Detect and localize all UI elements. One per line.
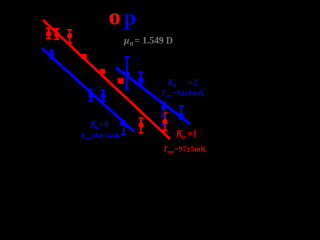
svg-text:p: p <box>124 4 136 29</box>
blue error bar B2-5 <box>179 106 184 119</box>
blue error bar B2-2 <box>138 72 143 86</box>
blue lower cap tick B2-4b <box>161 124 165 126</box>
red error bar R2 <box>54 29 59 39</box>
blue marker B2-5 <box>179 113 184 118</box>
blue fit line 1 (para, Ka=0) <box>42 48 134 131</box>
blue marker B2-1 <box>125 72 130 77</box>
red marker R7 <box>139 123 144 128</box>
red error bar R7 <box>139 118 144 133</box>
blue error bar B1-4 <box>121 128 126 135</box>
arrowhead on blue line 1 <box>119 118 128 128</box>
svg-text:= 1.549 D: = 1.549 D <box>135 37 174 47</box>
blue error bar B1-2 <box>88 89 93 101</box>
dipole moment label <box>123 37 173 48</box>
red error bar R1 <box>46 28 51 38</box>
svg-text:rot: rot <box>167 150 174 156</box>
blue marker B1-1 <box>49 52 54 57</box>
label Trot=94+-6mK (blue, right) <box>161 88 204 99</box>
blue marker B1-3 <box>101 94 106 99</box>
blue marker B2-4 <box>161 105 166 110</box>
blue fit line 2 (para, Ka=2) <box>116 68 190 125</box>
red marker R2 <box>54 32 59 37</box>
svg-text:rot: rot <box>165 93 172 99</box>
legend letter o (ortho, red) <box>109 5 121 31</box>
svg-text:=1: =1 <box>188 128 198 138</box>
red error bar R3 <box>67 30 72 43</box>
blue marker B2-2 <box>138 78 143 83</box>
label Ka=2 (blue, right) <box>167 77 198 89</box>
legend letter p (para, blue) <box>124 4 136 29</box>
svg-text:=97±5mK: =97±5mK <box>175 145 207 154</box>
blue error bar B2-1 <box>124 57 129 90</box>
blue marker B1-2 <box>89 92 94 97</box>
svg-text:μ: μ <box>123 37 129 47</box>
label Ka=1 (red) <box>175 128 198 140</box>
label Trot=97+-5mK (red) <box>163 145 206 156</box>
blue error bar B1-3 <box>101 90 106 101</box>
svg-text:a: a <box>130 40 134 48</box>
svg-text:rot: rot <box>84 136 91 142</box>
label Ka=0 (blue, left) <box>89 119 109 131</box>
red marker R8 <box>163 120 168 125</box>
blue error bar B1-1 <box>49 50 53 59</box>
blue error bar B2-4 <box>161 103 166 117</box>
red fit line (ortho, Ka=1) <box>43 20 170 139</box>
red error bar R8 <box>163 113 168 131</box>
red marker R1 <box>46 32 51 37</box>
label Trot=64+-5mK (blue, left) <box>80 131 121 142</box>
svg-text:=0: =0 <box>99 119 109 129</box>
red marker R4 <box>81 54 86 59</box>
red marker R5 <box>100 69 105 74</box>
svg-text:=2: =2 <box>188 77 198 87</box>
red marker R3 <box>67 34 72 39</box>
red marker R6 <box>118 78 124 84</box>
svg-text:=64±5mK: =64±5mK <box>92 133 121 140</box>
svg-text:=94±6mK: =94±6mK <box>173 88 205 97</box>
svg-text:o: o <box>109 5 121 31</box>
